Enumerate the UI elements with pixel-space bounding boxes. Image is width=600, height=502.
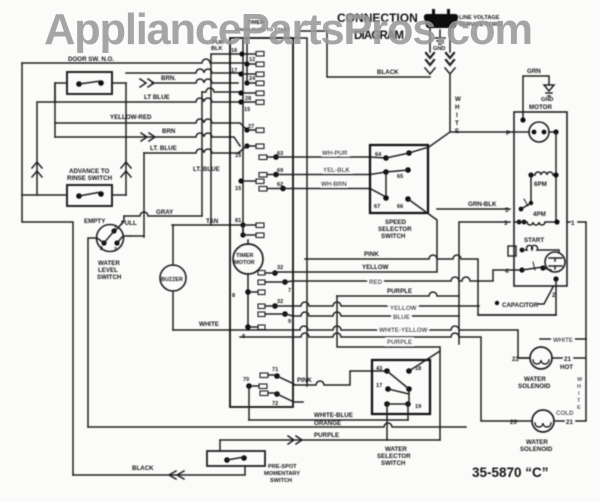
door switch contacts	[76, 80, 104, 87]
wire GRN from motor to ground	[523, 76, 549, 120]
wire buzzer bottom to white row	[172, 291, 174, 330]
svg-text:24: 24	[249, 76, 256, 82]
timer bus 2	[246, 38, 248, 83]
wire water level pin3 right	[130, 235, 144, 237]
svg-text:E: E	[577, 405, 581, 411]
svg-text:64: 64	[375, 152, 382, 158]
wire row 102 LT BLUE	[37, 98, 240, 195]
pin 62	[259, 182, 386, 197]
wire PURPLE row	[337, 292, 459, 296]
wire PINK row	[305, 255, 556, 315]
wire selector pin19L down	[386, 404, 388, 440]
motor box	[514, 112, 567, 286]
svg-text:GND: GND	[541, 97, 553, 103]
pre-spot contacts	[224, 455, 247, 463]
timer pin 70	[243, 377, 267, 389]
wire BLACK from cord to left	[300, 31, 430, 77]
svg-text:GRAY: GRAY	[156, 209, 174, 216]
pin 9	[258, 311, 291, 325]
centrifugal switch in motor	[519, 199, 534, 211]
svg-text:WATER: WATER	[385, 446, 407, 453]
timer bus	[242, 40, 244, 235]
pin 15	[238, 99, 264, 113]
svg-text:YEL-BLK: YEL-BLK	[323, 167, 350, 174]
svg-text:32: 32	[277, 299, 283, 305]
svg-text:LT. BLUE: LT. BLUE	[193, 166, 220, 173]
wire GRAY row	[124, 212, 202, 216]
svg-text:SPEED: SPEED	[385, 219, 407, 226]
wire from plug left prong	[429, 28, 431, 52]
svg-text:27: 27	[248, 124, 254, 130]
pin 8b	[242, 324, 265, 340]
wire YELLOW2 row	[275, 302, 479, 306]
wire right edge vertical	[574, 339, 586, 421]
svg-text:WH-BRN: WH-BRN	[321, 181, 347, 188]
wire door switch right BRN row	[112, 79, 238, 83]
ground symbol GND at cord	[433, 30, 445, 52]
svg-text:TAN: TAN	[206, 218, 219, 225]
pin 8	[232, 289, 265, 299]
svg-text:PURPLE: PURPLE	[387, 288, 412, 295]
svg-text:19: 19	[415, 404, 421, 410]
wire WHITE-BLUE row	[249, 419, 408, 421]
chevrons on left vertical	[32, 162, 42, 177]
timer pin 72	[260, 391, 303, 407]
svg-text:CAPACITOR: CAPACITOR	[502, 302, 539, 309]
pin 7	[258, 279, 291, 294]
svg-text:3: 3	[504, 220, 508, 227]
svg-text:7: 7	[288, 288, 291, 294]
svg-text:TIMER: TIMER	[236, 253, 253, 259]
wire vertical 144 to water level pin 3	[143, 153, 145, 237]
svg-text:4PM: 4PM	[533, 211, 546, 218]
svg-text:1: 1	[571, 220, 575, 227]
svg-text:15: 15	[235, 186, 241, 192]
speed selector pins	[374, 150, 412, 210]
svg-text:WHITE: WHITE	[553, 337, 573, 344]
svg-text:P: P	[506, 130, 510, 137]
speed selector switch box	[370, 145, 428, 213]
svg-text:20: 20	[510, 419, 517, 426]
wire ORANGE row	[88, 423, 466, 427]
pin 63	[259, 151, 386, 160]
svg-text:BRN: BRN	[162, 128, 176, 135]
svg-text:2: 2	[100, 246, 103, 252]
svg-text:70: 70	[243, 377, 249, 383]
svg-text:72: 72	[272, 401, 278, 407]
motor protector circle	[514, 122, 559, 142]
water selector switch box	[372, 360, 430, 414]
chevrons on BRN2	[141, 133, 155, 141]
wire speed selector to white wire	[409, 132, 450, 153]
node on motor box top-left	[520, 117, 525, 122]
wire 70 vertical to white-blue	[248, 386, 250, 420]
svg-text:COLD: COLD	[556, 410, 574, 417]
svg-text:65: 65	[397, 174, 403, 180]
start winding	[508, 245, 559, 256]
svg-text:28: 28	[245, 96, 251, 102]
timer motor circle	[233, 244, 263, 274]
svg-text:63: 63	[277, 151, 283, 157]
svg-text:BLACK: BLACK	[132, 465, 154, 472]
svg-text:SWITCH: SWITCH	[381, 460, 406, 467]
pin 81	[235, 218, 264, 238]
svg-text:9: 9	[288, 319, 291, 325]
6PM winding	[528, 172, 558, 188]
svg-text:RINSE SWITCH: RINSE SWITCH	[67, 175, 113, 182]
svg-text:PURPLE: PURPLE	[387, 339, 412, 346]
svg-text:21: 21	[564, 356, 571, 363]
open chevron below left cord	[425, 68, 435, 74]
arrow down on left cord wire	[426, 53, 434, 65]
label CAPACITOR	[495, 287, 553, 309]
line voltage service cord plug	[424, 9, 458, 28]
svg-text:SWITCH: SWITCH	[97, 274, 122, 281]
chevrons on BRN wire	[140, 79, 154, 87]
frame top-left	[22, 63, 73, 475]
svg-text:32: 32	[277, 265, 283, 271]
svg-text:43: 43	[376, 366, 382, 372]
svg-text:PURPLE: PURPLE	[314, 432, 339, 439]
svg-text:YELLOW: YELLOW	[390, 305, 417, 312]
svg-text:LEVEL: LEVEL	[98, 267, 118, 274]
wire 18 diagonal	[409, 351, 440, 371]
svg-text:SOLENOID: SOLENOID	[520, 446, 553, 453]
wire PURPLE2 row	[337, 296, 440, 440]
svg-text:T: T	[455, 120, 459, 127]
svg-text:35-5870 “C”: 35-5870 “C”	[472, 465, 549, 480]
door switch box	[67, 72, 112, 94]
svg-text:1: 1	[114, 226, 117, 232]
wire gray vertical	[201, 92, 203, 216]
wire solenoid 22 link	[518, 357, 530, 359]
wire pre-spot to purple3	[219, 440, 221, 451]
wire advance switch right	[112, 194, 126, 196]
svg-text:FULL: FULL	[121, 220, 137, 227]
svg-text:SELECTOR: SELECTOR	[378, 226, 412, 233]
svg-text:ORANGE: ORANGE	[314, 420, 341, 427]
svg-text:BUZZER: BUZZER	[161, 277, 183, 283]
svg-text:21: 21	[566, 419, 573, 426]
water level pins	[100, 226, 130, 253]
pin 15c	[235, 178, 264, 192]
svg-text:MOTOR: MOTOR	[234, 260, 255, 266]
wire GRN-BLK pin 5	[437, 208, 510, 210]
4PM winding	[514, 211, 560, 225]
wire water level pin1 riser	[117, 216, 124, 229]
svg-text:WATER: WATER	[524, 376, 546, 383]
wire BLACK row bottom	[73, 466, 245, 475]
svg-text:LT. BLUE: LT. BLUE	[150, 145, 177, 152]
svg-text:66: 66	[397, 204, 403, 210]
wire 6PM to start contact	[530, 175, 532, 203]
timer box	[230, 38, 293, 407]
wire row 63 frame to pin 12	[22, 59, 247, 63]
svg-text:WHITE: WHITE	[199, 321, 219, 328]
pin 32a	[258, 265, 283, 276]
svg-text:T: T	[577, 398, 581, 404]
wire timer motor stem	[247, 240, 249, 330]
timer pin 71	[260, 367, 294, 384]
svg-text:BLUE: BLUE	[393, 314, 410, 321]
wire pin 1 to right edge	[567, 222, 586, 339]
wire pin 3 row	[459, 222, 510, 344]
svg-text:YELLOW: YELLOW	[362, 264, 389, 271]
svg-text:69: 69	[277, 168, 283, 174]
buzzer circle	[160, 265, 186, 291]
svg-text:6PM: 6PM	[534, 181, 547, 188]
svg-text:MOMENTARY: MOMENTARY	[264, 471, 300, 477]
svg-text:GRN: GRN	[527, 68, 541, 75]
wire row 92	[202, 88, 241, 92]
pin 28	[238, 90, 264, 102]
svg-text:SELECTOR: SELECTOR	[377, 453, 411, 460]
svg-text:15: 15	[244, 107, 250, 113]
wire advance switch left	[22, 194, 67, 196]
svg-text:PINK: PINK	[297, 377, 312, 384]
wire selector pin19R down	[407, 404, 409, 420]
svg-text:I: I	[456, 112, 458, 119]
svg-text:12: 12	[249, 57, 255, 63]
advance switch contacts	[76, 191, 104, 199]
svg-text:SOLENOID: SOLENOID	[518, 383, 551, 390]
wire PINK71 row to selector 43	[294, 371, 387, 385]
svg-text:AppliancePartsPros.com: AppliancePartsPros.com	[44, 6, 533, 54]
wire water level pin2 left	[88, 238, 104, 427]
svg-text:WATER: WATER	[98, 260, 120, 267]
ground symbol GND at motor	[541, 85, 554, 103]
svg-text:START: START	[524, 237, 544, 244]
svg-text:EMPTY: EMPTY	[84, 218, 106, 225]
svg-text:YELLOW-RED: YELLOW-RED	[110, 114, 152, 121]
pin 16	[231, 48, 264, 57]
svg-text:I: I	[578, 391, 580, 397]
svg-text:ADVANCE TO: ADVANCE TO	[69, 168, 110, 175]
wire WHITE row to white-yellow	[173, 326, 518, 358]
svg-text:HOT: HOT	[560, 364, 573, 371]
svg-text:WHITE-YELLOW: WHITE-YELLOW	[379, 327, 428, 334]
wire TAN row	[172, 224, 240, 226]
svg-text:SWITCH: SWITCH	[381, 233, 406, 240]
svg-text:22: 22	[512, 356, 519, 363]
wire buzzer top	[172, 225, 174, 265]
water level switch circle	[97, 225, 124, 252]
wire 66 to yellow row	[408, 199, 437, 271]
svg-text:WATER: WATER	[526, 439, 548, 446]
wire motor right bus	[555, 132, 557, 222]
svg-text:15: 15	[235, 153, 241, 159]
svg-text:RED: RED	[369, 279, 383, 286]
wire row 73	[126, 69, 240, 73]
svg-text:MOTOR: MOTOR	[529, 104, 552, 111]
svg-text:LT BLUE: LT BLUE	[144, 94, 170, 101]
label WHITE vertical right	[577, 377, 583, 411]
svg-text:62: 62	[277, 182, 283, 188]
pin 15b	[235, 143, 264, 159]
pin 24	[244, 76, 264, 86]
svg-text:71: 71	[272, 367, 278, 373]
chevrons on advance branch	[121, 162, 131, 177]
svg-text:W: W	[455, 96, 461, 103]
pin 12	[244, 57, 264, 67]
svg-text:WHITE-BLUE: WHITE-BLUE	[314, 412, 353, 419]
svg-text:PINK: PINK	[364, 251, 379, 258]
water selector pins	[376, 366, 421, 410]
chevrons on purple3	[288, 436, 302, 444]
svg-text:BRN.: BRN.	[161, 75, 176, 82]
pin 27	[244, 124, 264, 133]
svg-text:W: W	[577, 377, 583, 383]
wire PUR-BLK vertical from pin16	[211, 54, 240, 225]
wire row 153 LT. BLUE	[144, 149, 240, 153]
svg-text:PRE-SPOT: PRE-SPOT	[268, 464, 297, 470]
wire capacitor node 2	[478, 279, 556, 315]
wire WHITE from cord to motor P	[450, 75, 514, 132]
wire row 123 YELLOW-RED	[55, 119, 247, 130]
chevrons on black row	[169, 471, 184, 479]
svg-text:81: 81	[235, 218, 241, 224]
svg-text:SWITCH: SWITCH	[270, 478, 292, 484]
wire advance branch vertical	[125, 83, 127, 195]
open chevron below right cord	[445, 68, 455, 74]
start relay circle	[545, 252, 565, 272]
svg-text:H: H	[455, 104, 460, 111]
svg-text:67: 67	[374, 204, 380, 210]
svg-text:17: 17	[376, 383, 382, 389]
water solenoid cold	[510, 410, 574, 453]
wire door switch left	[55, 83, 67, 102]
svg-text:3: 3	[114, 247, 117, 253]
wire RED row	[285, 270, 514, 282]
svg-text:BLACK: BLACK	[377, 69, 399, 76]
wire row 337 to cold solenoid	[240, 333, 517, 421]
pre-spot momentary switch box	[207, 451, 265, 466]
svg-text:8: 8	[232, 293, 235, 299]
wire BLUE row	[285, 312, 459, 316]
wire left vertical 55	[54, 83, 56, 137]
svg-text:DOOR SW. N.O.: DOOR SW. N.O.	[68, 56, 114, 63]
advance rinse switch box	[67, 185, 112, 206]
svg-text:5: 5	[505, 207, 509, 214]
wire row 137 BRN2	[55, 133, 240, 146]
pin 17	[231, 68, 264, 77]
wire pin 4 with switch blade	[514, 262, 551, 273]
svg-text:17: 17	[231, 68, 237, 74]
node 2 below start relay	[553, 276, 558, 281]
svg-text:WH-PUR: WH-PUR	[322, 150, 348, 157]
pin 69	[259, 168, 386, 177]
wire from plug right prong	[449, 28, 451, 52]
water solenoid hot	[512, 347, 573, 390]
wire PURPLE3 row	[220, 439, 440, 441]
svg-text:4: 4	[505, 268, 509, 275]
wire white right row	[540, 338, 586, 340]
timer top wire to vertical 305	[293, 38, 307, 386]
svg-text:GRN-BLK: GRN-BLK	[468, 201, 497, 208]
arrow down on right cord wire	[446, 53, 454, 65]
pin 32b	[258, 299, 283, 309]
wire YELLOW row	[275, 271, 437, 273]
svg-text:H: H	[577, 384, 581, 390]
